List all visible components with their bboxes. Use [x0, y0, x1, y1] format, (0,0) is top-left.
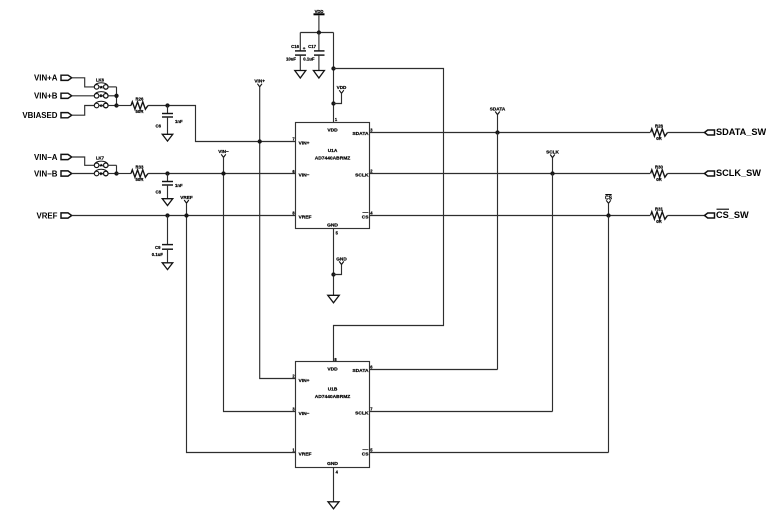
- svg-text:VDD: VDD: [327, 366, 338, 372]
- svg-text:CS_SW: CS_SW: [716, 210, 749, 220]
- connector J VBIASED: [61, 113, 72, 118]
- svg-text:C16: C16: [291, 44, 299, 49]
- wire VIN+ net vertical to U1B pin 2: [260, 87, 296, 379]
- svg-text:0R: 0R: [656, 136, 662, 141]
- wire LK6 output bus: [116, 87, 118, 106]
- svg-text:50R: 50R: [136, 177, 145, 182]
- svg-text:0R: 0R: [656, 177, 662, 182]
- svg-text:VREF: VREF: [299, 215, 312, 221]
- capacitor C16 10uF: [299, 33, 301, 51]
- svg-text:CS: CS: [362, 214, 370, 220]
- ground under C8: [162, 199, 173, 206]
- ground under U1B: [328, 502, 339, 509]
- svg-text:VIN−: VIN−: [299, 173, 310, 179]
- svg-text:R31: R31: [655, 206, 663, 211]
- svg-text:+: +: [303, 46, 306, 51]
- svg-text:VDD: VDD: [327, 128, 338, 134]
- wire VIN+A to LK6 pin A: [72, 78, 95, 87]
- wire VDD branch to U1A pin 1: [333, 33, 335, 123]
- junction LK7 bus B: [114, 171, 118, 175]
- wire LK6 B to bus: [108, 95, 116, 97]
- jumper LK6 A: [94, 85, 99, 90]
- resistor R28 0R: [651, 129, 668, 136]
- ground under C16: [295, 71, 306, 79]
- resistor R33 50R: [131, 170, 148, 177]
- capacitor C8 1nF: [167, 174, 169, 182]
- svg-text:C6: C6: [156, 124, 162, 129]
- svg-text:AD7440ABRMZ: AD7440ABRMZ: [315, 394, 351, 400]
- wire VIN- net vertical to U1B pin 3: [224, 157, 296, 411]
- svg-text:A: A: [100, 85, 103, 89]
- junction node VIN- cap tap: [165, 171, 169, 175]
- svg-text:GND: GND: [327, 461, 338, 467]
- junction VIN- at U1A pin 6 wire: [221, 171, 225, 175]
- svg-text:U1B: U1B: [328, 387, 338, 393]
- connector J VIN-A: [61, 154, 72, 159]
- svg-text:VIN−A: VIN−A: [34, 153, 58, 162]
- svg-text:10uF: 10uF: [286, 57, 296, 62]
- svg-text:VIN−: VIN−: [299, 411, 310, 417]
- svg-text:C8: C8: [156, 189, 162, 194]
- connector J VREF: [61, 213, 72, 218]
- svg-text:R28: R28: [655, 123, 663, 128]
- wire LK7 output bus: [116, 165, 118, 173]
- svg-text:VIN+: VIN+: [254, 79, 265, 84]
- jumper LK7 B: [94, 171, 99, 176]
- svg-text:VDD: VDD: [315, 9, 324, 14]
- svg-text:R33: R33: [136, 164, 144, 169]
- svg-text:U1A: U1A: [328, 148, 338, 154]
- svg-text:AD7440ABRMZ: AD7440ABRMZ: [315, 156, 351, 162]
- resistor R30 0R: [651, 170, 668, 177]
- svg-text:VIN+: VIN+: [299, 378, 310, 384]
- junction CS net: [606, 213, 610, 217]
- svg-text:VIN+B: VIN+B: [34, 92, 58, 101]
- svg-text:SDATA: SDATA: [352, 131, 369, 137]
- capacitor C9 0.1uF: [167, 216, 169, 245]
- svg-text:VIN−B: VIN−B: [34, 169, 58, 178]
- wire U1A SDATA to R28: [370, 132, 651, 134]
- svg-text:LK7: LK7: [96, 156, 105, 161]
- svg-text:1nF: 1nF: [175, 183, 183, 188]
- svg-text:VBIASED: VBIASED: [22, 111, 57, 120]
- junction VIN+ at U1A pin 7: [258, 139, 262, 143]
- svg-text:VREF: VREF: [36, 211, 57, 220]
- svg-text:0.1uF: 0.1uF: [303, 57, 315, 62]
- svg-text:C: C: [100, 104, 103, 108]
- capacitor C6 1nF: [167, 106, 169, 114]
- jumper LK6 B: [94, 94, 99, 99]
- wire SCLK flag stem: [552, 158, 554, 174]
- junction LK6 bus C: [114, 103, 118, 107]
- wire U1B GND pin to ground: [333, 468, 335, 502]
- junction SCLK net: [550, 171, 554, 175]
- svg-text:VIN+A: VIN+A: [34, 74, 58, 83]
- wire VDD rail to U1B pin 8: [334, 69, 444, 362]
- wire U1A CS to R31: [370, 215, 651, 217]
- svg-text:SCLK: SCLK: [546, 149, 559, 154]
- junction GND flag tap: [331, 272, 335, 276]
- wire SCLK net vertical: [552, 174, 554, 412]
- svg-text:B: B: [100, 172, 103, 176]
- junction VDD branch to U1B: [331, 66, 335, 70]
- ground under C17: [313, 71, 324, 79]
- junction VREF cap tap: [165, 213, 169, 217]
- connector J VIN-B: [61, 171, 72, 176]
- svg-text:SCLK: SCLK: [355, 411, 369, 417]
- wire LK7 to R33: [117, 173, 132, 175]
- connector J VIN+A: [61, 75, 72, 80]
- junction VDD rail: [317, 30, 321, 34]
- junction node VIN+ cap tap: [165, 103, 169, 107]
- svg-text:VIN+: VIN+: [299, 141, 310, 147]
- wire VREF to U1A pin 8: [72, 215, 296, 217]
- jumper LK6 C: [94, 103, 99, 108]
- connector SCLK_SW: [705, 171, 715, 176]
- capacitor C17 0.1uF: [318, 33, 320, 51]
- connector J VIN+B: [61, 93, 72, 98]
- svg-text:C17: C17: [308, 44, 316, 49]
- ground under U1A: [328, 295, 340, 303]
- wire LK6 C to bus: [108, 105, 116, 107]
- wire VDD bar stem: [318, 15, 320, 32]
- svg-text:50R: 50R: [136, 109, 145, 114]
- svg-text:R30: R30: [655, 164, 663, 169]
- resistor R26 50R: [131, 102, 148, 109]
- junction VREF at U1A pin 8 wire: [184, 213, 188, 217]
- wire CS net vertical: [608, 216, 610, 453]
- ground under C6: [162, 134, 173, 141]
- wire VIN+B to LK6 pin B: [72, 95, 95, 97]
- svg-text:C9: C9: [155, 245, 161, 250]
- resistor R31 0R: [651, 212, 668, 219]
- wire U1A GND pin to ground: [333, 229, 335, 296]
- svg-text:SCLK: SCLK: [355, 172, 369, 178]
- svg-text:VREF: VREF: [180, 195, 193, 200]
- junction SDATA net: [495, 130, 499, 134]
- wire VREF net vertical to U1B pin 1: [187, 203, 296, 452]
- ground under C9: [162, 263, 173, 270]
- wire SDATA flag stem: [497, 115, 499, 133]
- wire U1B SCLK pin to net: [370, 411, 553, 413]
- wire CS flag stem: [608, 203, 610, 215]
- jumper LK7 A: [94, 163, 99, 168]
- wire R26 to node VIN+: [148, 106, 296, 142]
- svg-text:GND: GND: [327, 222, 338, 228]
- svg-text:LK6: LK6: [96, 78, 105, 83]
- wire R30 to SCLK_SW connector: [668, 173, 705, 175]
- IC U1A AD7440ABRMZ: [296, 123, 370, 229]
- wire LK7 B to bus: [108, 173, 116, 175]
- svg-text:0.1uF: 0.1uF: [152, 252, 164, 257]
- wire U1B CS pin to net: [370, 452, 609, 454]
- connector SDATA_SW: [705, 130, 715, 135]
- junction LK6 bus B: [114, 94, 118, 98]
- svg-text:B: B: [100, 94, 103, 98]
- svg-text:SDATA_SW: SDATA_SW: [716, 127, 766, 137]
- connector CS_SW: [705, 213, 715, 218]
- svg-text:R26: R26: [136, 96, 144, 101]
- wire LK6 to R26: [117, 105, 132, 107]
- wire VDD flag stem: [334, 93, 342, 103]
- wire LK7 A to bus: [108, 164, 116, 166]
- wire VIN-B to LK7 pin B: [72, 173, 95, 175]
- wire R33 to U1A pin 6: [148, 173, 296, 175]
- wire VBIASED to LK6 pin C: [72, 106, 95, 116]
- wire R28 to SDATA_SW connector: [668, 132, 705, 134]
- svg-text:VIN−: VIN−: [218, 149, 229, 154]
- svg-text:A: A: [100, 164, 103, 168]
- wire VIN-A to LK7 pin A: [72, 157, 95, 165]
- wire U1A SCLK to R30: [370, 173, 651, 175]
- svg-text:SDATA: SDATA: [352, 368, 369, 374]
- wire U1B SDATA pin to net: [370, 369, 498, 371]
- power symbol VDD (bar): [314, 13, 325, 15]
- wire SDATA net vertical: [497, 133, 499, 370]
- wire LK6 A to bus: [108, 86, 116, 88]
- wire VDD top rail: [300, 32, 333, 34]
- wire GND flag stem: [334, 265, 342, 275]
- svg-text:CS: CS: [362, 452, 370, 458]
- junction VDD flag tap: [331, 101, 335, 105]
- svg-text:VREF: VREF: [299, 452, 312, 458]
- svg-text:0R: 0R: [656, 219, 662, 224]
- wire R31 to CS_SW connector: [668, 215, 705, 217]
- svg-text:SCLK_SW: SCLK_SW: [716, 168, 761, 178]
- IC U1B AD7440ABRMZ: [296, 362, 370, 468]
- svg-text:GND: GND: [336, 256, 347, 261]
- svg-text:1nF: 1nF: [175, 119, 183, 124]
- svg-text:VDD: VDD: [337, 85, 347, 90]
- svg-text:SDATA: SDATA: [490, 106, 506, 111]
